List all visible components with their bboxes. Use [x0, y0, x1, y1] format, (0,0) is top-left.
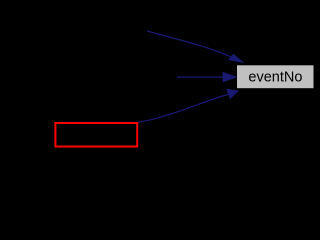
svg-text:eventNo: eventNo	[248, 70, 302, 86]
